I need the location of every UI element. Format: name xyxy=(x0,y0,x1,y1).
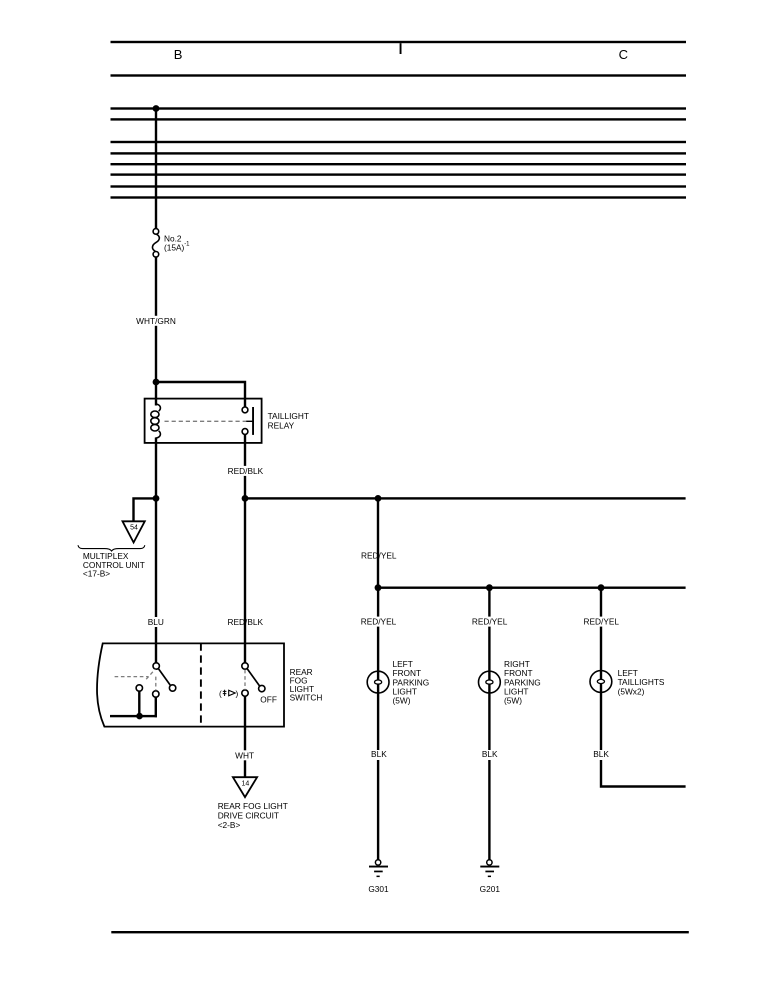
bus wire 1 xyxy=(111,107,687,109)
junction dot RED/BLK node xyxy=(242,495,249,502)
wire branch to multiplex arrow xyxy=(134,498,157,521)
svg-text:(5Wx2): (5Wx2) xyxy=(618,686,645,696)
column tick mark xyxy=(400,43,402,54)
svg-text:RELAY: RELAY xyxy=(268,420,295,430)
svg-text:G201: G201 xyxy=(480,884,501,894)
bus wire 7 xyxy=(111,185,687,187)
page frame bottom line xyxy=(111,931,689,933)
svg-text:<17-B>: <17-B> xyxy=(83,568,110,578)
svg-text:BLK: BLK xyxy=(482,749,498,759)
svg-text:RED/YEL: RED/YEL xyxy=(472,617,508,627)
relay armature tick xyxy=(246,420,254,422)
switch right terminal off xyxy=(259,685,265,691)
wire bulb2 drop xyxy=(488,588,490,860)
connector arrow 54 xyxy=(123,521,145,542)
svg-text:-1: -1 xyxy=(184,241,190,247)
rear fog light switch box xyxy=(97,643,284,726)
bus wire 3 xyxy=(111,141,687,143)
svg-text:C: C xyxy=(619,47,628,62)
wire relay to junction xyxy=(244,443,246,499)
wire switch to drive circuit arrow xyxy=(244,696,246,777)
svg-text:(15A): (15A) xyxy=(164,243,185,253)
wire label RED/YEL bulb1 xyxy=(360,617,397,627)
svg-text:SWITCH: SWITCH xyxy=(290,693,323,703)
svg-text:BLU: BLU xyxy=(148,617,164,627)
brace under arrow 54 xyxy=(78,545,145,551)
wire label RED/BLK 2 xyxy=(227,617,264,627)
wire fuse to relay junction xyxy=(155,258,157,383)
wire branch to relay contact xyxy=(156,382,245,399)
relay contact terminal bottom xyxy=(242,429,248,435)
switch left blade xyxy=(158,669,170,686)
wire label BLU xyxy=(147,617,165,627)
svg-text:WHT: WHT xyxy=(235,750,254,760)
bulb left taillights xyxy=(590,671,612,693)
wire label BLK bulb2 xyxy=(481,749,499,760)
svg-text:WHT/GRN: WHT/GRN xyxy=(136,316,176,326)
junction dot bulb1 xyxy=(375,584,382,591)
wire label RED/YEL bulb3 xyxy=(583,617,620,627)
junction dot at relay branch xyxy=(153,379,160,386)
fuse No.2 (15A) xyxy=(152,229,159,258)
bulb right front parking light xyxy=(479,671,501,693)
svg-text:(5W): (5W) xyxy=(504,696,522,706)
svg-text:(: ( xyxy=(219,688,222,698)
bus wire 4 xyxy=(111,152,687,154)
switch box dashed divider xyxy=(200,643,202,726)
wire label WHT/GRN xyxy=(136,316,177,326)
relay contact bar xyxy=(252,407,254,435)
wire label BLK bulb3 xyxy=(593,749,611,760)
wire parking feed vertical xyxy=(377,498,379,589)
wire label RED/YEL bulb2 xyxy=(471,617,508,627)
wire parking light horizontal feed xyxy=(378,587,686,589)
wire label WHT xyxy=(234,750,255,760)
wire from bus to fuse xyxy=(155,109,157,229)
switch left common terminal xyxy=(153,663,159,669)
relay box xyxy=(145,399,262,443)
wire left rail to switch xyxy=(155,498,157,663)
switch left terminal left xyxy=(136,685,142,691)
page frame top line 1 xyxy=(111,41,687,43)
svg-text:14: 14 xyxy=(242,781,250,788)
wire label BLK bulb1 xyxy=(370,749,388,760)
page frame top line 2 xyxy=(111,74,687,76)
switch internal bus xyxy=(110,715,157,717)
bus wire 6 xyxy=(111,173,687,175)
svg-text:(5W): (5W) xyxy=(393,696,411,706)
switch right terminal output xyxy=(242,690,248,696)
switch right dashed link xyxy=(244,670,246,690)
wire relay coil to node xyxy=(155,438,157,499)
junction dot bulb2 xyxy=(486,584,493,591)
svg-text:B: B xyxy=(174,47,183,62)
svg-text:<2-B>: <2-B> xyxy=(218,820,241,830)
wire left rail into relay coil xyxy=(155,382,157,406)
relay contact terminal top xyxy=(242,407,248,413)
wire bulb3 drop and elbow xyxy=(601,588,686,787)
wire bulb1 drop xyxy=(377,588,379,860)
switch left terminal right xyxy=(169,685,175,691)
junction dot parking feed tap xyxy=(375,495,382,502)
wire horizontal feed line xyxy=(245,497,686,499)
relay contact wire stubs xyxy=(244,399,246,408)
ground G201 xyxy=(480,860,501,894)
bulb left front parking light xyxy=(367,671,389,693)
bus wire 8 xyxy=(111,196,687,198)
svg-text:G301: G301 xyxy=(368,884,389,894)
ground G301 xyxy=(368,860,389,894)
switch internal wire middle xyxy=(155,697,157,717)
svg-text:OFF: OFF xyxy=(260,694,277,704)
relay linkage dashed line xyxy=(165,420,248,422)
junction dot on bus wire 1 xyxy=(153,105,160,112)
wire RED/BLK rail to switch xyxy=(244,498,246,662)
svg-text:BLK: BLK xyxy=(593,749,609,759)
wire label RED/YEL upper xyxy=(361,551,398,561)
junction dot left rail node xyxy=(153,495,160,502)
switch internal wire left xyxy=(138,691,140,717)
svg-text:RED/YEL: RED/YEL xyxy=(584,617,620,627)
relay coil xyxy=(151,399,161,443)
junction dot switch bus xyxy=(136,713,143,720)
wire label RED/BLK xyxy=(227,466,264,476)
bus wire 2 xyxy=(111,118,687,120)
bus wire 5 xyxy=(111,163,687,165)
svg-text:RED/YEL: RED/YEL xyxy=(361,617,397,627)
junction dot bulb3 xyxy=(598,584,605,591)
switch right blade xyxy=(247,669,260,686)
connector arrow 14 xyxy=(233,777,257,797)
svg-text:BLK: BLK xyxy=(371,749,387,759)
switch linkage dashes xyxy=(115,669,156,690)
switch right input terminal xyxy=(242,663,248,669)
svg-text:54: 54 xyxy=(130,525,138,532)
svg-text:RED/BLK: RED/BLK xyxy=(228,466,264,476)
switch left terminal middle xyxy=(153,691,159,697)
svg-text:): ) xyxy=(236,688,239,698)
